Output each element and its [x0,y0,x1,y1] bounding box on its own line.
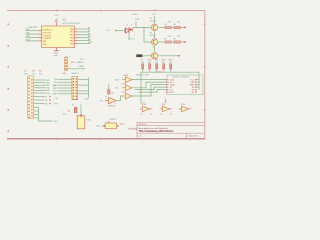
svg-text:GND: GND [79,66,84,68]
svg-text:74: 74 [143,102,145,104]
wire left of IC1 pin PD2 [26,37,38,39]
value labels right of junctions [54,98,59,105]
SV1 pin pads column2 [76,78,78,100]
svg-text:CTS: CTS [54,98,59,100]
SV2 pin pads [65,59,67,69]
IC2F designator [161,104,166,106]
teal label row above gates [136,73,149,76]
resistor value labels [141,62,172,64]
svg-text:SCL: SCL [115,88,119,90]
net label RXD [26,29,31,31]
svg-text:DTR RTS: DTR RTS [28,27,38,29]
wire IC2A output to IC3 [132,79,166,81]
IC2E pin numbers below [141,114,153,116]
wire R12 stub down [163,69,165,72]
svg-text:11: 11 [141,114,143,116]
R6 value label [173,22,181,27]
wire dark label to T3 base [142,55,151,57]
svg-text:PD0/RXD: PD0/RXD [43,30,52,32]
svg-text:TXD: TXD [26,33,31,35]
svg-text:1k: 1k [72,104,74,106]
svg-text:VCC: VCC [107,30,112,32]
svg-text:3 VBT: 3 VBT [168,92,174,94]
Q1 value label [87,120,91,122]
net label TXD [26,33,31,35]
svg-text:13: 13 [160,114,162,116]
wire X1 pin5 CTS [34,87,45,89]
wire SV1 left pin5 [58,90,72,92]
svg-text:10: 10 [150,114,152,116]
wire SV2 bottom pin right [68,68,85,69]
title block outline [137,122,205,139]
transistor T1 [151,24,157,30]
svg-text:BC547: BC547 [150,35,157,37]
wire R11 stub down [156,69,158,72]
wire IC2D out to IC2C in [116,96,122,101]
svg-text:1 2 3 5 6: 1 2 3 5 6 [155,72,162,74]
svg-text:DTR: DTR [46,93,51,95]
svg-text:LED1: LED1 [133,14,139,16]
wire IC2B output staircase to IC3 [132,82,166,88]
wire X1 pin7 DTR [34,92,45,94]
svg-text:10.11.19: 10.11.19 [139,124,148,126]
wire pullup bus [141,72,199,104]
wire LED1 to T1 base [133,27,151,29]
wire R10 stub down [149,69,151,72]
pin number labels near LED1 [134,32,146,37]
svg-text:GND: GND [53,94,58,96]
R14 labels [105,89,114,98]
connector SV1 header body [72,77,78,100]
wire X1 pin4 RTS [34,84,45,86]
svg-text:IC2G: IC2G [181,104,186,106]
op-amp IC2D big buffer body [109,97,117,103]
wire IC1 PB2 to net label [78,34,90,36]
svg-text:10k: 10k [148,62,151,64]
svg-text:1k: 1k [105,96,107,98]
svg-text:MA08-2: MA08-2 [72,72,80,75]
svg-text:GND: GND [54,55,59,57]
IC3 left pin names [168,79,175,95]
resistor R13 [170,64,172,69]
resistor R4 bottom center [74,108,77,113]
svg-text:RXD: RXD [26,29,31,31]
svg-text:OW: OW [100,100,103,102]
IC2A designator [124,74,129,77]
wire SV1 left pin4 [58,87,72,89]
wire SV1 right pin7 [78,93,89,95]
SV1 reference designator [63,72,80,75]
wire X1 gnd stub 4 [34,117,39,119]
wire SV1 left pin6 [58,93,72,95]
designator left of R4 [63,111,72,116]
IC2B input stub [122,87,125,89]
SV2 value label [77,61,85,64]
wire R8 end stub [180,41,185,43]
resistor R6 [174,26,180,28]
svg-text:Sheet: 1/1: Sheet: 1/1 [189,135,199,138]
wire junction to T2 base [143,27,151,42]
svg-text:MO: MO [54,82,58,84]
wire R6 end stub [180,27,185,29]
IC3 block outline [167,75,203,95]
net labels right of IC1 [88,28,93,44]
resistor R12 [163,64,165,69]
IC2E designator [142,102,147,106]
logic gate IC2A body [125,77,132,83]
title block date text [139,124,148,126]
resistor R14 above gate IC2D [108,90,110,94]
crystal Q1 body [77,114,85,128]
svg-text:SG: SG [45,103,48,105]
logic gate IC2E body bottom row [143,106,150,112]
svg-text:BC547: BC547 [150,21,157,23]
R5 value label [164,22,172,27]
logic gate IC2B body [125,85,132,91]
wire left of IC1 pin PD0 [26,30,38,32]
wire IC1 PB1 to net label [78,31,90,33]
svg-text:10k: 10k [162,62,165,64]
frame border right [204,11,206,139]
svg-text:SCK: SCK [88,42,93,44]
op-amp U1 main MCU IC1 body [42,26,75,48]
wire T2 emitter to T3 collector [154,46,156,52]
logic gate IC2F body [162,106,169,112]
IC1 reference designator [63,20,67,22]
T2 designator and value [150,32,157,37]
net label INT1 [26,39,31,41]
svg-text:10k: 10k [111,92,114,94]
net label right of SV2 wire [79,59,85,68]
svg-text:RGB: RGB [135,19,140,21]
connector SV2 body [64,58,67,71]
svg-text:RTS: RTS [54,103,59,105]
net label left of LED1 [107,30,117,32]
S2 value label right [120,123,125,125]
transistor T2 [151,39,157,45]
wire IC1 PB3 to net label [78,37,90,39]
net labels right of X1 upper wires [46,80,51,95]
svg-text:DS1307+ S08 RTC: DS1307+ S08 RTC [172,77,190,79]
wire T1 out to R5 [158,27,165,29]
made-with label [128,128,137,131]
IC2C designator [122,92,127,94]
svg-text:8: 8 [115,103,116,105]
IC1 bottom ground pin stub [56,48,58,51]
wire left of IC1 pin PD3 [26,40,38,42]
svg-text:10uF: 10uF [120,123,125,125]
svg-text:IC2C: IC2C [122,92,127,94]
svg-text:PD3/INT1: PD3/INT1 [43,38,53,40]
svg-text:IC2B: IC2B [122,83,127,85]
power arrow above SV2 [65,56,66,58]
svg-text:PD1/TXD: PD1/TXD [43,32,52,34]
wire IC2C output staircase to IC3 [132,85,166,96]
svg-text:4: 4 [131,24,132,26]
LED1 RGB led symbol [125,27,133,34]
dark net label at T3 base [136,54,142,57]
svg-text:MO: MO [88,36,92,38]
IC2E stubs [140,108,153,110]
wire T1 collector up [154,16,156,24]
X1 pin pads column 1 [28,78,29,119]
IC3 right stubs [197,80,199,88]
svg-text:VCC: VCC [80,59,85,61]
wire SV1 left pin2 [58,81,72,83]
wire SV1 right pin3 [78,84,89,86]
IC1 right pin stubs [75,29,79,43]
IC3 right pin pads [195,79,196,93]
wire T2 out to R7 [158,41,165,43]
wire X1 pin8 [34,96,44,98]
svg-text:74HC04: 74HC04 [108,105,115,107]
svg-text:2: 2 [127,24,128,26]
title block sheet row [139,135,199,138]
wire SV1 right vertical bus [88,78,90,96]
svg-text:TiNo funZwanzig ASCII Edition: TiNo funZwanzig ASCII Edition [139,130,174,133]
T3 designator and value [152,47,155,49]
svg-text:GND: GND [85,99,90,101]
title block title text [139,130,174,133]
wire into IC3 row4 [135,87,166,90]
svg-text:B G R: B G R [129,39,135,41]
wire IC1 PB5 to net label [78,42,90,44]
svg-text:RESET: RESET [110,119,117,121]
svg-text:IC2E: IC2E [142,104,147,106]
T1 designator and value [150,18,157,23]
wire R5 to R6 [171,27,174,29]
wire SV1 right pin1 [78,78,89,80]
svg-text:12: 12 [170,114,172,116]
wire R13 stub down [170,69,172,72]
IC2G stubs [179,108,192,110]
IC2B input label [115,88,119,90]
net labels left of SV1 [53,79,58,96]
IC2G designator [181,104,186,106]
wire X1 gnd stub 3 [34,114,39,116]
IC1 left pin names [43,30,53,47]
wire IC1 PB0 to net label [78,28,90,30]
wire X1 pin3 RXD [34,82,45,84]
IC1 value label [63,22,81,25]
IC2A input stub [122,79,125,81]
frame border bottom [7,138,205,140]
wire SV1 left pin1 [58,78,72,80]
LED1 pin number marks [127,24,132,26]
wire LED1 anode vertical [135,22,137,28]
wire IC1 PB4 to net label [78,40,90,42]
frame border top [7,10,205,12]
IC2C input stub [122,95,125,97]
wire X1 ground bus vertical [34,108,52,122]
resistor R11 [156,64,158,69]
wire above R14 [108,84,110,90]
IC1 top power pin stub [56,23,58,26]
logic gate IC2C body [125,93,132,99]
svg-text:10k: 10k [155,62,158,64]
wire X1 pin2 TXD [34,79,45,81]
svg-text:SDA SCL SQW: SDA SCL SQW [136,73,149,76]
resistor R9 [142,64,144,69]
svg-text:fritzing: fritzing [128,128,137,131]
net label row above left wires [28,27,38,29]
switch S2 body bottom left [104,123,119,129]
wire T1 emitter to T2 collector [154,31,156,38]
svg-text:IC2A: IC2A [124,74,129,77]
net label row below LED1 [129,39,135,41]
wire into IC3 row5 [138,90,166,93]
value label pair 3 above X1 [39,70,43,75]
pin number text row above IC3 wires [155,72,162,74]
IC3 left pin pads [166,79,167,93]
svg-text:VCC: VCC [152,14,157,16]
value label pair 2 above X1 [32,70,36,75]
wire SV1 right pin5 [78,90,89,92]
wire into Q1 top [80,105,82,116]
IC2F stubs [160,108,173,110]
IC2A input label [115,78,120,81]
frame row ticks left [8,24,10,133]
R4 value label [72,104,74,106]
designator left of SV1 wires [54,85,58,87]
wire X1 pin6 DSR [34,89,45,91]
IC1 left pin stubs [38,31,41,41]
SV2 pin numbers [70,66,72,68]
S2 labels [108,119,117,124]
svg-text:R14: R14 [107,89,110,91]
resistor R8 [174,41,180,43]
svg-text:GND: GND [43,44,48,46]
wire X1 pin9 [34,99,44,101]
net label left of S2 [96,126,101,128]
R7 value label [164,36,172,41]
svg-text:PD2/INT0: PD2/INT0 [43,35,53,37]
IC3 title label [172,77,190,79]
svg-text:MA04-1: MA04-1 [77,61,85,64]
net label INT0 [26,36,31,38]
title block author text [139,127,168,130]
connector X1 DB25 body [27,76,33,119]
wire SV1 left pin3 [58,84,72,86]
IC1 right pin names [70,29,75,46]
wire R7 to R8 [171,41,174,43]
svg-text:GND: GND [53,121,58,123]
wire S2 left stub [102,125,104,127]
R8 value label [173,36,181,41]
wire X1 pin10 [34,103,44,105]
X1 reference designator [24,70,28,75]
SV2 reference designator [71,62,76,64]
IC2B designator [122,83,127,85]
resistor R5 [165,26,171,28]
IC2D input stub [105,100,109,102]
resistor R7 [165,41,171,43]
IC2D value below [108,103,116,108]
svg-text:ATTINY2313-20SU: ATTINY2313-20SU [63,22,81,25]
wire R9 stub down [142,69,144,72]
power symbol VCC above IC1 [55,15,60,22]
wire left of IC1 pin PD1 [26,33,38,35]
wire X1 gnd stub 2 [34,110,39,112]
IC2D input label [100,100,103,102]
resistor designators [141,60,174,62]
ground net label at X1 bus [53,121,58,123]
svg-text:VCC: VCC [55,15,60,17]
transistor T3 [151,53,157,59]
logic gate IC2G body [182,106,189,112]
IC3 right pin names [190,80,196,95]
svg-text:10k: 10k [141,62,144,64]
LED1 designator [133,14,141,21]
wire into LED1 left [117,30,125,32]
svg-text:10k: 10k [169,62,172,64]
wire T3 out long [158,55,180,57]
IC2F pin numbers below [160,114,172,116]
resistor R10 [149,64,151,69]
ground symbol below IC1 [54,51,59,57]
svg-text:10k: 10k [63,113,66,115]
net labels and junction dots lower X1 wires [45,96,51,106]
ground symbol below SV1 bus [85,96,90,101]
svg-text:VCC: VCC [53,91,58,93]
X1 pin pads column 2 [31,79,32,117]
wire LED1 bottom down [128,35,130,41]
svg-text:16M: 16M [87,120,91,122]
SV1 pin pads column1 [73,78,75,100]
label above T1 [152,14,157,16]
power stub above IC2F [164,98,166,103]
